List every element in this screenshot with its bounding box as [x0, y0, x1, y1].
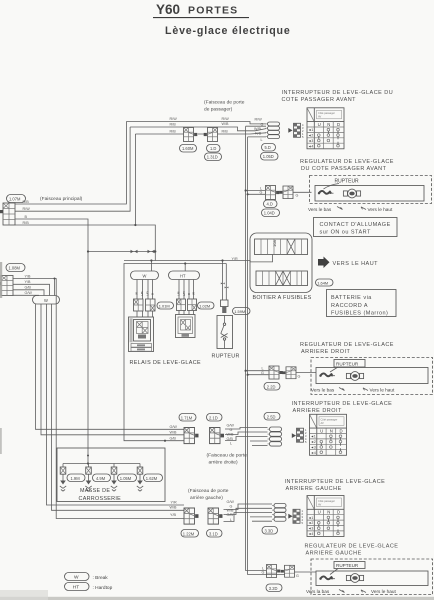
svg-text:B: B: [187, 293, 191, 295]
oval 1.01M: [157, 302, 174, 309]
svg-text:L: L: [261, 138, 263, 142]
svg-text:R/B: R/B: [23, 221, 30, 225]
svg-text:10A: 10A: [272, 240, 277, 247]
svg-text:G: G: [296, 194, 299, 198]
svg-text:R/B: R/B: [222, 130, 229, 134]
rupteur label rear right: [330, 360, 365, 373]
HT relay drop wires: [177, 280, 196, 300]
svg-text:G/W: G/W: [170, 425, 178, 429]
oval 2.5D: [264, 413, 280, 421]
switch table front passenger: [307, 108, 344, 149]
svg-text:1.07M: 1.07M: [9, 197, 21, 202]
svg-text:Y/B: Y/B: [170, 513, 176, 517]
svg-text:G: G: [260, 190, 263, 194]
oval 1.62M: [144, 474, 163, 482]
wire G to switch: [246, 122, 266, 126]
wire R/B main 1: [15, 122, 126, 205]
connector 5.D rounded stack: [266, 122, 280, 139]
rupteur feed wires: [221, 259, 229, 300]
svg-text:R/B: R/B: [23, 200, 30, 204]
svg-text:1.02M: 1.02M: [199, 303, 210, 308]
box CONTACT D'ALLUMAGE: [314, 218, 398, 237]
svg-text:R/W: R/W: [23, 207, 31, 211]
oval 1.05M: [118, 474, 137, 482]
regulator rear right dashed box: [311, 358, 433, 395]
svg-text:G/B: G/B: [170, 436, 177, 440]
svg-text:3.3D: 3.3D: [265, 528, 274, 533]
svg-text:G/W: G/W: [227, 423, 235, 427]
wires 2.1D to rear right switch: [225, 428, 268, 446]
svg-text:REGULATEUR DE LEVE-GLACE: REGULATEUR DE LEVE-GLACE: [300, 159, 394, 165]
svg-text:5.D: 5.D: [265, 145, 271, 150]
svg-text:1.31D: 1.31D: [207, 155, 218, 160]
breaker rear left: [319, 576, 335, 579]
svg-text:sur ON ou START: sur ON ou START: [320, 230, 371, 236]
branch to rear right regulator L: [245, 367, 269, 372]
checkered connector rear right switch: [297, 428, 304, 442]
oval 5.D: [262, 144, 276, 152]
arrow into switch: [288, 128, 292, 133]
wire R/B main 2: [15, 134, 135, 225]
svg-text:PORTES: PORTES: [188, 5, 238, 17]
wire B main to ground: [15, 215, 88, 464]
svg-text:G: G: [261, 371, 264, 375]
branch to front regulator G: [247, 190, 266, 195]
wires connectors to relays: [137, 311, 194, 318]
svg-text:W: W: [74, 575, 79, 581]
oval 3.1D: [207, 530, 223, 538]
wire G/W to W oval: [13, 291, 39, 296]
connector main harness 1.07M: [0, 203, 15, 225]
ground drop 1: [60, 464, 66, 492]
connector rear right reg pair: [269, 366, 283, 379]
svg-text:1.60M: 1.60M: [182, 146, 194, 151]
svg-text:G: G: [298, 374, 301, 378]
fuse box outline: [250, 233, 312, 293]
oval 1.07M: [7, 195, 26, 203]
wire B branch with splices: [87, 250, 156, 253]
riser HT relay: [184, 262, 186, 271]
svg-text:INTERRUPTEUR DE LEVE-GLACE: INTERRUPTEUR DE LEVE-GLACE: [285, 479, 386, 485]
svg-text:(Faisceau principal): (Faisceau principal): [40, 196, 83, 202]
svg-text:Vers le bas: Vers le bas: [311, 388, 335, 393]
ground drop 4: [137, 464, 143, 492]
rupteur centre box: [217, 316, 233, 349]
oval 4.D: [264, 200, 278, 208]
svg-text:: Hardtop: : Hardtop: [93, 585, 113, 591]
svg-text:1.D: 1.D: [210, 146, 216, 151]
svg-text:DU COTE PASSAGER AVANT: DU COTE PASSAGER AVANT: [301, 166, 387, 172]
trunk wire G to regulators: [248, 137, 285, 575]
svg-text:Vers le haut: Vers le haut: [368, 207, 393, 212]
relay bus line A: [124, 260, 250, 262]
svg-text:G/B: G/B: [227, 513, 234, 517]
oval W relay: [131, 271, 159, 280]
svg-text:INTERRUPTEUR DE LEVE-GLACE DU: INTERRUPTEUR DE LEVE-GLACE DU: [282, 90, 394, 96]
svg-text:L: L: [230, 442, 232, 446]
switch table rear left: [307, 496, 344, 537]
svg-text:RUPTEUR: RUPTEUR: [212, 354, 240, 360]
svg-text:W/B: W/B: [254, 127, 262, 131]
title Y60 PORTES: [153, 2, 249, 18]
svg-text:Y/B: Y/B: [25, 280, 31, 284]
connector 4.D pair: [266, 186, 280, 200]
wire G into rear left regulator: [295, 572, 317, 578]
svg-text:B: B: [151, 293, 155, 295]
wire G/B to W oval: [13, 286, 44, 296]
wire G into front regulator: [293, 192, 312, 197]
masse enclosure: [57, 448, 165, 502]
svg-text:R/B: R/B: [170, 123, 177, 127]
svg-text:G: G: [296, 574, 299, 578]
svg-text:L/B: L/B: [177, 291, 181, 296]
oval 1.60M: [180, 145, 197, 153]
regulator front inner unit: [315, 186, 424, 202]
svg-text:2.5D: 2.5D: [267, 414, 276, 419]
wires below W oval: [36, 304, 185, 429]
scan artifact bottom band: [0, 597, 434, 600]
regulator rear left inner unit: [316, 571, 428, 586]
pin number column front switch: [302, 123, 304, 139]
svg-text:3.2D: 3.2D: [269, 586, 278, 591]
connector 1.D: [204, 128, 218, 142]
svg-text:ARRIERE GAUCHE: ARRIERE GAUCHE: [306, 551, 362, 557]
svg-text:G: G: [261, 122, 264, 126]
labels rear left bundle: [170, 500, 178, 517]
pin column rear right switch: [305, 428, 307, 444]
svg-text:1.05D: 1.05D: [263, 154, 274, 159]
HT relay connectors: [177, 299, 197, 311]
svg-text:de passager): de passager): [204, 107, 233, 113]
wire bypass to left rear: [54, 278, 185, 519]
switch table rear right: [310, 414, 347, 455]
oval 1.22M: [181, 530, 199, 538]
connector 1.22M pair: [184, 508, 198, 524]
svg-text:FUSIBLES (Marron): FUSIBLES (Marron): [331, 311, 388, 317]
legend oval W: [65, 573, 109, 581]
svg-text:INTERRUPTEUR DE LEVE-GLACE: INTERRUPTEUR DE LEVE-GLACE: [292, 401, 393, 407]
oval 1.9M: [67, 474, 85, 482]
pin labels rear right switch: [227, 423, 235, 445]
wire Y/R into fuse: [250, 255, 273, 262]
connector 1.60M: [184, 128, 198, 142]
wire Y/B 2 to W oval: [13, 280, 50, 295]
wire R/B feed to relay bus: [134, 224, 155, 261]
svg-text:R/B: R/B: [255, 132, 262, 136]
vers le bas / haut rear right: [311, 388, 395, 393]
svg-text:1.9M: 1.9M: [71, 476, 81, 481]
ground drop 2: [85, 464, 91, 492]
relay hardtop box: [176, 315, 196, 338]
connector 1.71M pair: [184, 428, 198, 444]
svg-text:G: G: [230, 428, 233, 432]
svg-text:1.05M: 1.05M: [120, 476, 132, 481]
svg-text:W: W: [192, 292, 196, 295]
connector rear left reg pair: [267, 565, 281, 578]
svg-text:Vers la bas: Vers la bas: [306, 589, 330, 594]
relay break W box: [129, 317, 154, 352]
svg-text:Vers le haut: Vers le haut: [371, 589, 396, 594]
svg-text:G/W: G/W: [25, 291, 33, 295]
rupteur label rear left: [330, 562, 365, 575]
svg-text:L: L: [230, 518, 232, 522]
svg-text:W/B: W/B: [222, 122, 230, 126]
fuse strip bottom: [256, 271, 308, 286]
oval 1.D: [207, 145, 221, 153]
svg-text:4.D: 4.D: [267, 202, 273, 207]
svg-text:RUPTEUR: RUPTEUR: [336, 362, 359, 367]
svg-text:VERS LE HAUT: VERS LE HAUT: [333, 261, 379, 267]
oval 1.71M: [179, 414, 196, 422]
wire Y/B 1 to W oval: [13, 274, 55, 295]
vers le bas / haut rear left: [306, 589, 396, 594]
legend oval HT: [65, 583, 113, 591]
oval W harness: [33, 296, 60, 305]
svg-text:1.59M: 1.59M: [234, 309, 245, 314]
svg-text:BOITIER A FUSIBLES: BOITIER A FUSIBLES: [253, 295, 312, 301]
oval 2.2D: [264, 383, 280, 391]
svg-text:R/W: R/W: [255, 118, 263, 122]
svg-text:G/B: G/B: [227, 437, 234, 441]
oval 1.08M: [6, 264, 25, 272]
connector main harness 1.08M: [0, 276, 13, 296]
svg-text:Lève-glace électrique: Lève-glace électrique: [165, 25, 291, 37]
svg-text:CONTACT D'ALLUMAGE: CONTACT D'ALLUMAGE: [320, 222, 391, 228]
svg-text:arrière droite): arrière droite): [209, 460, 238, 466]
riser W relay: [150, 259, 152, 271]
svg-text:Y/R: Y/R: [171, 500, 177, 504]
svg-text:COTE PASSAGER AVANT: COTE PASSAGER AVANT: [282, 97, 357, 103]
arrow vers le haut: [318, 257, 378, 269]
svg-text:ARRIERE GAUCHE: ARRIERE GAUCHE: [286, 486, 342, 492]
box BATTERIE: [327, 290, 397, 317]
oval 2.1D: [207, 414, 223, 422]
scan artifact left edge: [0, 262, 2, 298]
svg-text:1.01M: 1.01M: [159, 303, 170, 308]
svg-text:3.1D: 3.1D: [209, 531, 218, 536]
breaker front: [318, 191, 334, 194]
oval 1.31D: [205, 153, 222, 161]
regulator rear left dashed box: [311, 559, 433, 595]
oval 1.04D: [262, 209, 280, 217]
wire R/W main: [15, 127, 130, 211]
svg-text:REGULATEUR DE LEVE-GLACE: REGULATEUR DE LEVE-GLACE: [300, 342, 394, 348]
svg-text:4.9M: 4.9M: [96, 476, 106, 481]
wires 3.1D to rear left switch: [224, 504, 273, 522]
svg-text:arrière gauche): arrière gauche): [190, 495, 223, 501]
regulator rear right inner unit: [316, 368, 428, 384]
svg-text:W: W: [135, 292, 139, 295]
svg-text:HT: HT: [73, 585, 79, 591]
oval 3.2D: [266, 584, 282, 592]
svg-text:RACCORD A: RACCORD A: [331, 303, 368, 309]
branch to front regulator L: [245, 186, 266, 191]
wire R/B front door low: [135, 130, 266, 136]
svg-text:1.62M: 1.62M: [146, 476, 158, 481]
svg-text:(Faisceau de porte: (Faisceau de porte: [188, 488, 229, 494]
svg-text:HT: HT: [180, 274, 186, 279]
fuse strip top: [255, 239, 308, 255]
wire R/W front door: [126, 117, 266, 124]
svg-text:Y/R: Y/R: [232, 257, 238, 261]
checkered connector front switch: [294, 123, 301, 137]
oval 4.9M: [93, 474, 111, 482]
oval 1.59M: [233, 308, 251, 315]
oval HT relay: [169, 271, 200, 280]
W relay drop wires: [135, 280, 155, 300]
oval 1.02M: [198, 302, 215, 309]
svg-text:Y60: Y60: [156, 2, 180, 17]
oval 3.3D: [262, 527, 278, 535]
svg-text:W/B: W/B: [170, 506, 178, 510]
svg-text:REGULATEUR DE LEVE-GLACE: REGULATEUR DE LEVE-GLACE: [305, 544, 399, 550]
svg-text:2.2D: 2.2D: [267, 384, 276, 389]
connector rear right switch stack: [268, 427, 282, 446]
svg-text:R/W: R/W: [170, 117, 178, 121]
svg-text:1.08M: 1.08M: [9, 266, 21, 271]
svg-text:W: W: [143, 274, 147, 279]
svg-text:W/B: W/B: [170, 430, 178, 434]
svg-text:R/B: R/B: [170, 130, 177, 134]
svg-text:Vers le bas: Vers le bas: [308, 207, 332, 212]
branch to rear right regulator G: [247, 371, 269, 376]
motor rear right: [346, 372, 363, 381]
labels rear right bundle left: [170, 425, 178, 441]
svg-text:R/W: R/W: [222, 117, 230, 121]
oval 1.64M: [316, 279, 334, 286]
svg-text:(Faisceau de porte: (Faisceau de porte: [204, 100, 245, 106]
svg-text:Y/B: Y/B: [25, 274, 31, 278]
trunk wire L to regulators: [246, 126, 266, 570]
svg-text:W/B: W/B: [227, 432, 235, 436]
ground drop 3: [111, 464, 117, 492]
pin labels rear left switch: [227, 500, 235, 522]
motor rear left: [346, 574, 363, 583]
svg-text:MASSE DE: MASSE DE: [80, 488, 110, 494]
vers le bas / haut front: [308, 207, 393, 212]
svg-text:ARRIERE DROIT: ARRIERE DROIT: [293, 408, 342, 414]
svg-text:W: W: [44, 298, 48, 303]
wire L to switch: [248, 137, 266, 142]
W relay connectors: [134, 299, 156, 311]
svg-text:1.04D: 1.04D: [264, 211, 275, 216]
arrow into rear right switch: [292, 433, 296, 438]
svg-text:(Faisceau de porte: (Faisceau de porte: [207, 453, 248, 459]
motor front: [343, 189, 360, 198]
svg-text:L/B: L/B: [140, 291, 144, 296]
wire R/B front door mid: [130, 122, 266, 131]
oval 1.05D: [261, 153, 279, 161]
wire G into rear right regulator: [296, 373, 316, 379]
svg-text:G/B: G/B: [25, 286, 32, 290]
svg-text:G: G: [262, 571, 265, 575]
svg-text:BATTERIE via: BATTERIE via: [331, 295, 372, 301]
svg-text:RELAIS DE LEVE-GLACE: RELAIS DE LEVE-GLACE: [130, 360, 202, 366]
svg-text:1.71M: 1.71M: [181, 415, 193, 420]
svg-text:1.22M: 1.22M: [183, 531, 195, 536]
connector 2.1D pair: [210, 428, 224, 444]
breaker rear right: [319, 373, 335, 376]
arrow into rear left switch: [288, 514, 292, 519]
svg-text:1.64M: 1.64M: [317, 280, 328, 285]
regulator front passenger dashed box: [310, 176, 432, 204]
connector rear left switch stack: [272, 504, 286, 522]
svg-text:: Break: : Break: [93, 575, 109, 581]
svg-text:Vers le haut: Vers le haut: [370, 388, 395, 393]
connector 3.1D pair: [208, 508, 222, 524]
masse bus: [63, 455, 140, 465]
svg-text:ARRIERE DROIT: ARRIERE DROIT: [301, 349, 350, 355]
rupteur centre cylinder: [221, 300, 229, 313]
svg-text:2.1D: 2.1D: [209, 415, 218, 420]
pin column rear left switch: [302, 509, 304, 525]
svg-text:CARROSSERIE: CARROSSERIE: [79, 496, 122, 502]
svg-text:RUPTEUR: RUPTEUR: [336, 563, 359, 568]
checkered connector rear left switch: [293, 509, 300, 523]
relay bus line B and trunk down: [124, 264, 226, 442]
rupteur label front: [324, 178, 360, 189]
